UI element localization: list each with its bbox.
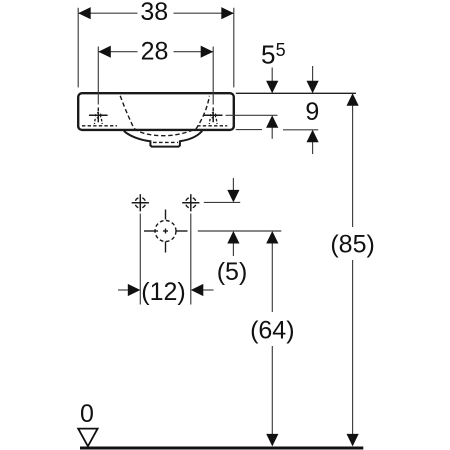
svg-text:(64): (64): [250, 316, 294, 344]
svg-text:9: 9: [305, 98, 319, 126]
svg-text:0: 0: [80, 400, 94, 428]
svg-text:(12): (12): [141, 278, 185, 306]
svg-text:28: 28: [141, 37, 169, 65]
svg-text:5: 5: [261, 40, 275, 70]
svg-text:(5): (5): [217, 258, 248, 286]
svg-text:(85): (85): [330, 231, 374, 259]
svg-text:5: 5: [276, 40, 286, 60]
svg-text:38: 38: [140, 0, 168, 26]
